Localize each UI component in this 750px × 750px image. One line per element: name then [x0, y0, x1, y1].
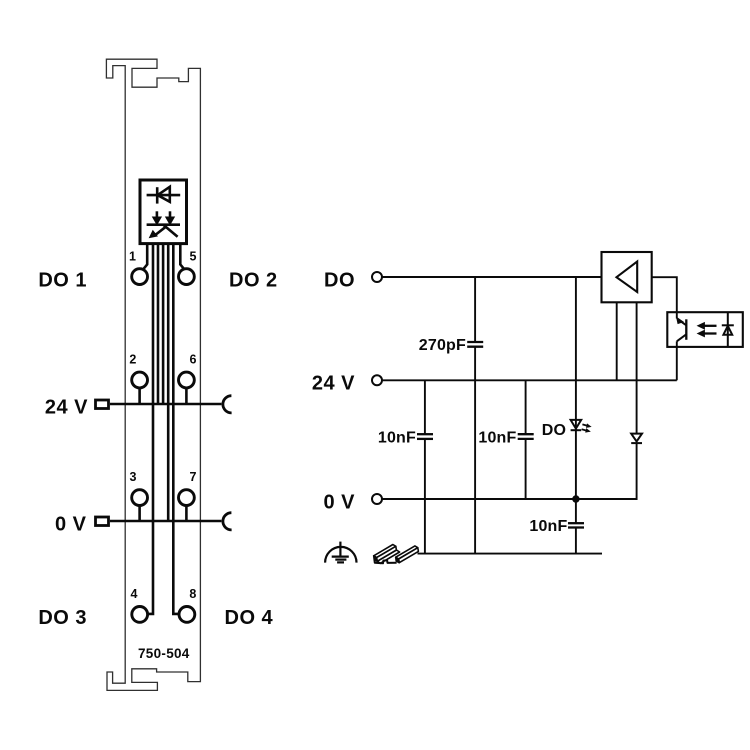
wire driver output to 24V: [616, 302, 618, 380]
capacitor 10nF (1): [417, 434, 433, 439]
svg-text:24 V: 24 V: [312, 373, 355, 395]
wire C (to 24V rail): [162, 244, 165, 404]
0V rail wire: [110, 520, 221, 523]
svg-text:3: 3: [130, 470, 137, 484]
LED DO: [571, 420, 582, 430]
stem contact6 to 24V rail: [185, 388, 188, 404]
svg-text:DO: DO: [542, 422, 566, 439]
terminal 0V: [372, 494, 382, 504]
capacitor 10nF (2): [518, 434, 534, 439]
module outline 750-504 housing: [106, 59, 200, 690]
svg-text:DO 4: DO 4: [225, 607, 274, 629]
svg-text:1: 1: [129, 249, 136, 263]
wire driver to diode branch: [636, 302, 638, 433]
stem contact2 to 24V rail: [138, 388, 141, 404]
svg-text:5: 5: [190, 249, 197, 263]
contact 2: [132, 372, 148, 388]
contact 5: [179, 269, 195, 285]
wire DO LED branch: [575, 277, 577, 554]
contact 7: [179, 490, 195, 506]
contact 1: [132, 269, 148, 285]
wire E (to contact 8): [173, 244, 178, 614]
wire 270pF branch: [474, 277, 476, 554]
svg-text:10nF: 10nF: [478, 430, 516, 447]
svg-text:0 V: 0 V: [55, 514, 87, 536]
capacitor 10nF (3): [568, 523, 584, 527]
terminal DO: [372, 272, 382, 282]
electronics box U1: [140, 180, 187, 244]
pin 7 lead: [180, 244, 183, 269]
svg-text:8: 8: [189, 587, 196, 601]
svg-text:2: 2: [129, 353, 136, 367]
24V socket arc (right): [223, 396, 232, 413]
svg-text:270pF: 270pF: [419, 337, 466, 354]
svg-text:24 V: 24 V: [45, 397, 88, 419]
LED emission arrows: [582, 424, 591, 432]
wire B (to 24V rail): [157, 244, 160, 404]
svg-text:DO: DO: [324, 269, 355, 291]
24V rail wire: [110, 403, 221, 406]
wire DO line: [382, 276, 602, 278]
contact 8: [179, 607, 195, 623]
wire D (to 0V rail): [167, 244, 170, 521]
phototransistor: [677, 317, 687, 341]
svg-text:DO 3: DO 3: [38, 607, 87, 629]
junction dot 0V/LED branch: [572, 495, 579, 502]
DIN rail clip symbol: [374, 545, 419, 564]
svg-text:6: 6: [190, 353, 197, 367]
driver U2 box: [602, 252, 652, 302]
contact 3: [132, 490, 148, 506]
wire 0V line: [382, 443, 637, 499]
wire A (to contact 4): [148, 244, 153, 614]
svg-text:4: 4: [131, 587, 138, 601]
24V plug connector (left): [96, 400, 109, 409]
wire 10nF branch 2: [525, 380, 527, 499]
contact 6: [179, 372, 195, 388]
svg-text:7: 7: [190, 470, 197, 484]
driver triangle: [617, 262, 638, 293]
terminal 24V: [372, 375, 382, 385]
optocoupler box: [667, 312, 743, 347]
svg-text:10nF: 10nF: [529, 518, 567, 535]
wire 10nF branch 1: [424, 380, 426, 553]
optocoupler light arrows: [698, 323, 717, 337]
svg-text:0 V: 0 V: [323, 491, 355, 513]
wire 24V line: [382, 379, 677, 381]
0V plug connector (left): [96, 517, 109, 526]
0V socket arc (right): [223, 513, 232, 530]
ground symbol: [325, 542, 356, 563]
optocoupler LED: [722, 312, 734, 347]
wire driver right to optocoupler: [652, 277, 677, 318]
pin 1 lead: [144, 244, 147, 269]
stem contact3 to 0V rail: [138, 506, 141, 522]
suppressor symbol inside box (bottom): [147, 211, 180, 237]
contact 4: [132, 607, 148, 623]
svg-text:10nF: 10nF: [378, 430, 416, 447]
wire phototransistor emitter down to 24V: [676, 341, 678, 380]
svg-text:DO 2: DO 2: [229, 269, 278, 291]
diode D1: [631, 434, 642, 444]
svg-text:750-504: 750-504: [138, 646, 190, 661]
stem contact7 to 0V rail: [185, 506, 188, 522]
svg-text:DO 1: DO 1: [38, 269, 87, 291]
capacitor 270pF: [467, 342, 483, 347]
diode symbol inside box (top): [147, 187, 181, 204]
ground wire (bottom): [418, 553, 603, 555]
